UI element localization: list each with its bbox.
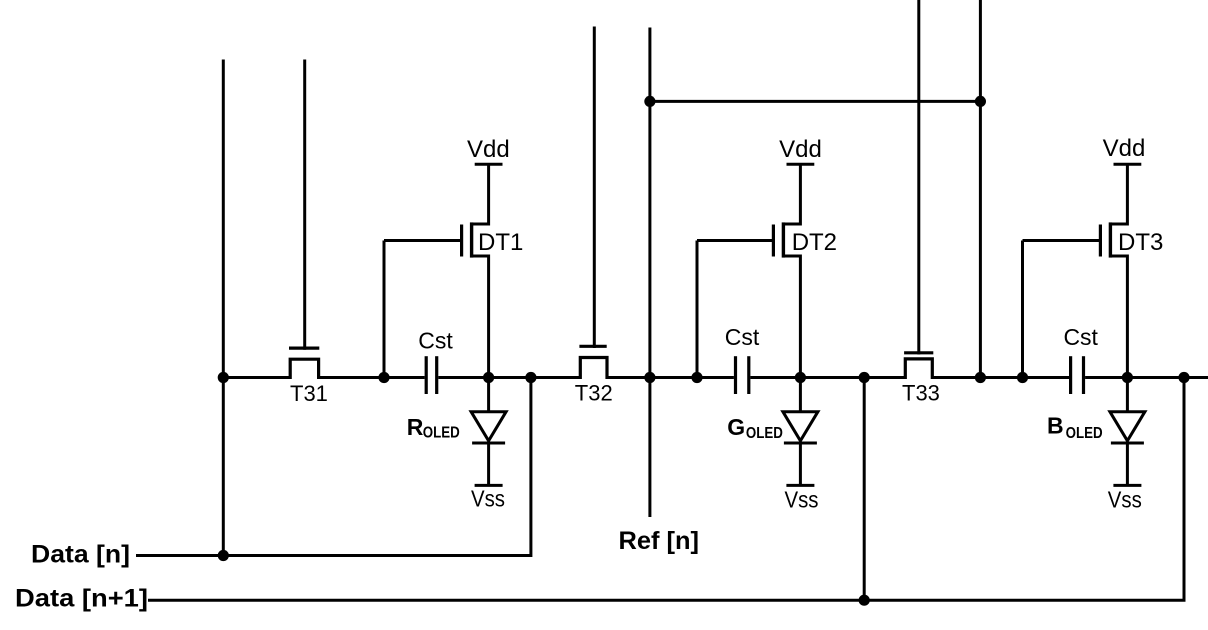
svg-text:DT2: DT2	[792, 229, 837, 256]
svg-text:OLED: OLED	[423, 425, 460, 442]
svg-text:Vdd: Vdd	[779, 136, 822, 163]
svg-text:Cst: Cst	[1063, 324, 1098, 350]
svg-text:B: B	[1047, 413, 1064, 439]
svg-text:DT3: DT3	[1118, 229, 1163, 256]
svg-text:Ref [n]: Ref [n]	[619, 527, 700, 555]
svg-text:Data [n+1]: Data [n+1]	[15, 585, 148, 613]
svg-text:T31: T31	[290, 381, 328, 406]
svg-text:R: R	[407, 414, 424, 440]
svg-text:Vdd: Vdd	[1103, 135, 1146, 162]
svg-text:Cst: Cst	[725, 324, 760, 350]
svg-text:Vss: Vss	[785, 487, 819, 513]
svg-text:Data [n]: Data [n]	[31, 541, 130, 569]
svg-text:OLED: OLED	[746, 425, 783, 442]
svg-text:T32: T32	[575, 380, 613, 405]
svg-text:Cst: Cst	[418, 328, 453, 354]
svg-text:Vss: Vss	[1108, 487, 1142, 513]
svg-text:OLED: OLED	[1066, 425, 1103, 442]
svg-text:Vdd: Vdd	[467, 136, 510, 163]
svg-text:DT1: DT1	[478, 229, 523, 256]
svg-text:G: G	[727, 414, 745, 440]
svg-text:Vss: Vss	[471, 486, 505, 512]
svg-text:T33: T33	[902, 381, 940, 406]
